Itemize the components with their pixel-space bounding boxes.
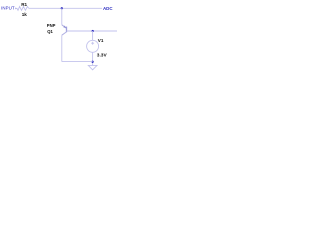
plus sign xyxy=(91,42,94,45)
node INPUT port arrow xyxy=(16,8,18,10)
svg-text:R1: R1 xyxy=(21,2,27,7)
wire V1 plus lead xyxy=(92,31,94,40)
wire V1 minus lead xyxy=(92,52,94,65)
wire base to V1 top rail xyxy=(67,30,118,32)
svg-text:1k: 1k xyxy=(22,12,28,17)
base bar xyxy=(66,27,68,33)
emitter diagonal xyxy=(62,25,67,29)
wire vertical from top rail to Q1 emitter xyxy=(61,8,63,25)
svg-text:Q1: Q1 xyxy=(47,29,53,34)
voltage source V1 xyxy=(87,40,99,52)
emitter arrow xyxy=(63,26,66,29)
junction node top xyxy=(61,7,63,9)
resistor R1 xyxy=(16,7,29,11)
svg-text:V1: V1 xyxy=(98,38,104,43)
ground xyxy=(88,65,97,69)
wire bottom rail xyxy=(62,61,93,63)
svg-text:ADC: ADC xyxy=(103,6,113,11)
collector diagonal xyxy=(62,32,67,35)
svg-text:INPUT: INPUT xyxy=(1,6,15,11)
svg-text:3.3V: 3.3V xyxy=(97,52,108,58)
svg-text:PNP: PNP xyxy=(47,23,56,28)
transistor Q1 PNP xyxy=(62,25,67,35)
junction node base/V1 xyxy=(92,30,94,32)
wire Q1 collector down xyxy=(61,35,63,61)
junction node bottom xyxy=(91,61,93,63)
wire top rail xyxy=(29,7,102,9)
